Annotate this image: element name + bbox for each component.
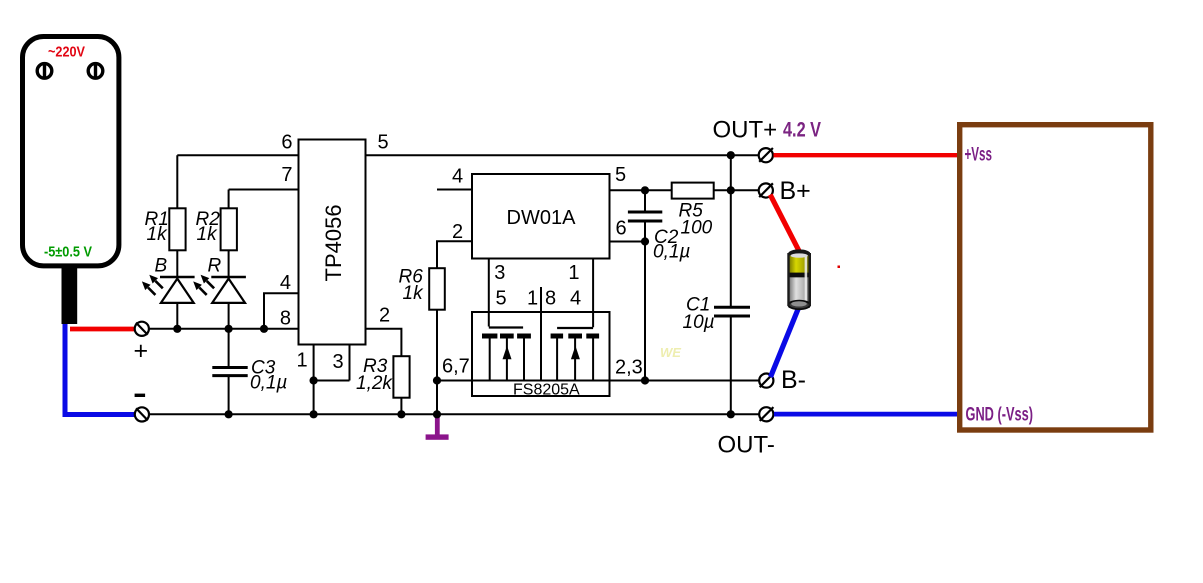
svg-text:100: 100 (681, 218, 713, 239)
svg-text:7: 7 (281, 164, 292, 186)
svg-text:4: 4 (452, 166, 463, 188)
adapter pin left (37, 64, 52, 79)
svg-text:2,3: 2,3 (615, 357, 643, 379)
svg-text:3: 3 (333, 351, 344, 373)
label 6,7 (442, 356, 470, 378)
DW01A pin 5 label (615, 164, 626, 186)
resistor R5 (672, 183, 714, 199)
wire 6,7 / 2,3 bus (437, 380, 759, 382)
label GND (-Vss) (966, 405, 1034, 426)
svg-text:6: 6 (281, 132, 292, 154)
pin 6 label (281, 132, 292, 154)
wire R3 to GND rail (400, 398, 402, 415)
LED R (193, 250, 246, 328)
label - (135, 394, 146, 397)
svg-text:2: 2 (452, 221, 463, 243)
label +Vss (965, 145, 993, 166)
wire C2/pin6 down to bus (644, 242, 646, 381)
red wire from cord to + terminal (70, 327, 135, 332)
label R2 1k (196, 209, 221, 245)
wire DW01A pin3 to FET1 gate (488, 258, 490, 327)
IC U3 FS8205A body (472, 312, 610, 399)
svg-text:5: 5 (496, 288, 507, 310)
svg-text:TP4056: TP4056 (321, 204, 346, 281)
artifact red speck (838, 266, 841, 269)
svg-text:DW01A: DW01A (507, 207, 577, 229)
svg-text:1: 1 (297, 350, 308, 372)
red wire B+ to battery (770, 195, 799, 252)
DW01A pin 6 label (616, 218, 627, 240)
label 4.2 V (783, 119, 821, 142)
svg-text:4.2 V: 4.2 V (783, 119, 821, 142)
battery BT1 (787, 249, 811, 309)
artifact yellow ghost (660, 345, 681, 360)
FS8205A pin 5 label (496, 288, 507, 310)
svg-text:1k: 1k (197, 224, 219, 245)
svg-text:6: 6 (616, 218, 627, 240)
adapter label -5±0.5 V (44, 244, 92, 261)
pin 4 label (280, 272, 291, 294)
FS8205A pin 4 label (570, 288, 581, 310)
svg-text:0,1µ: 0,1µ (250, 373, 287, 394)
svg-text:B-: B- (781, 366, 806, 394)
svg-text:0,1µ: 0,1µ (653, 242, 690, 263)
label R3 1,2k (356, 356, 393, 394)
FS8205A pin 1 label (527, 288, 538, 310)
svg-text:+: + (134, 337, 149, 365)
wire TP4056 pin6 line (177, 155, 297, 208)
label R6 1k (399, 267, 425, 305)
adapter label ~220V (48, 44, 85, 61)
wire TP4056 pin2 to R3 (367, 329, 402, 357)
resistor R3 (393, 356, 409, 398)
svg-text:4: 4 (280, 272, 291, 294)
DW01A pin 2 label (452, 221, 463, 243)
label + (134, 337, 149, 365)
load box (brown) (960, 125, 1151, 430)
svg-text:2: 2 (379, 305, 390, 327)
pin 3 label (333, 351, 344, 373)
red wire OUT+ to load (774, 153, 958, 157)
capacitor C2 (628, 190, 662, 241)
svg-text:FS8205A: FS8205A (513, 382, 580, 399)
pin 2 label (379, 305, 390, 327)
terminal B+ (759, 183, 773, 197)
FS8205A pin 8 label (545, 288, 556, 310)
svg-text:1k: 1k (147, 224, 169, 245)
wire DW01A pin1 to FET2 gate (592, 258, 594, 327)
label 2,3 (615, 357, 643, 379)
label B- (781, 366, 806, 394)
DW01A pin 1 label (568, 262, 579, 284)
adapter cord (62, 264, 78, 324)
wire R6 to GND rail (436, 310, 438, 415)
blue wire OUT- to load (774, 412, 958, 417)
wire TP4056 pin4 jog (264, 293, 298, 329)
svg-text:B: B (155, 256, 168, 277)
LED B (142, 250, 195, 328)
svg-text:3: 3 (494, 262, 505, 284)
svg-text:1,2k: 1,2k (356, 373, 393, 394)
wire bottom GND rail (149, 413, 759, 415)
wire DW01A pin6 to C2 (611, 241, 646, 243)
svg-text:R: R (208, 256, 222, 277)
label B (155, 256, 168, 277)
label OUT- (718, 432, 775, 459)
label C3 0,1µ (250, 358, 287, 394)
wire TP4056 pin5 to OUT+ (367, 154, 760, 156)
pin 1 label (297, 350, 308, 372)
label C2 0,1µ (653, 227, 690, 263)
label R (208, 256, 222, 277)
DW01A pin 3 label (494, 262, 505, 284)
DW01A pin4 stub (437, 189, 471, 191)
resistor R6 (429, 268, 445, 310)
terminal OUT- (759, 407, 773, 421)
svg-text:WE: WE (660, 345, 681, 360)
wire TP4056 pin7 line (229, 190, 298, 209)
label R1 1k (145, 209, 169, 245)
terminal B- (759, 373, 773, 387)
TP4056 pins 1,3 (314, 346, 350, 415)
label OUT+ (713, 117, 778, 144)
svg-text:OUT-: OUT- (718, 432, 775, 459)
wire center pins 1,8 to bus (540, 287, 542, 381)
ground symbol (purple) (426, 415, 449, 440)
pin 8 label (280, 308, 291, 330)
svg-text:OUT+: OUT+ (713, 117, 778, 144)
terminal OUT+ (759, 148, 773, 162)
svg-text:1: 1 (527, 288, 538, 310)
svg-text:10µ: 10µ (683, 312, 715, 333)
svg-text:-5±0.5 V: -5±0.5 V (44, 244, 92, 261)
transistor Q1 (left FET) (482, 328, 531, 381)
svg-text:4: 4 (570, 288, 581, 310)
blue wire from cord to - terminal (65, 324, 135, 415)
wire +5V rail to TP4056 pin8 (149, 328, 298, 330)
op-amp U1 TP4056 body (299, 140, 366, 345)
svg-text:GND (-Vss): GND (-Vss) (966, 405, 1034, 426)
svg-text:6,7: 6,7 (442, 356, 470, 378)
wire DW01A pin5 to R5 and B+ (611, 189, 760, 191)
pin 7 label (281, 164, 292, 186)
resistor R2 (221, 208, 237, 250)
transistor Q2 (right FET) (551, 328, 600, 381)
resistor R1 (169, 208, 185, 250)
svg-text:+Vss: +Vss (965, 145, 993, 166)
svg-text:1k: 1k (403, 283, 425, 304)
label R5 100 (679, 201, 713, 239)
wire DW01A pin2 to R6 (437, 241, 471, 268)
DW01A pin 4 label (452, 166, 463, 188)
blue wire battery to B- (771, 308, 799, 377)
label C1 10µ (683, 295, 715, 334)
svg-text:1: 1 (568, 262, 579, 284)
svg-text:~220V: ~220V (48, 44, 85, 61)
svg-text:8: 8 (280, 308, 291, 330)
adapter pin right (88, 64, 103, 79)
terminal + (input) (135, 322, 149, 336)
capacitor C3 (212, 329, 247, 415)
node dots (173, 151, 735, 418)
pin 5 label (378, 132, 389, 154)
capacitor C1 (714, 155, 750, 414)
label B+ (780, 177, 811, 205)
svg-text:5: 5 (615, 164, 626, 186)
svg-text:8: 8 (545, 288, 556, 310)
IC U2 DW01A body (472, 174, 610, 259)
svg-text:5: 5 (378, 132, 389, 154)
power adapter body (23, 37, 119, 266)
terminal - (input) (135, 407, 149, 421)
svg-text:B+: B+ (780, 177, 811, 205)
